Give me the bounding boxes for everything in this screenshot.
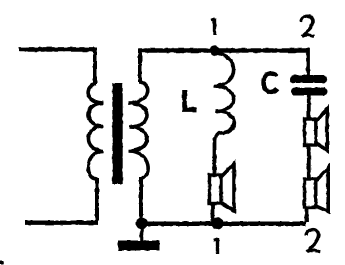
transformer T1 primary winding — [88, 84, 103, 179]
wire top-left (primary input top) — [19, 47, 94, 52]
wire speaker LS3 to bottom rail — [305, 206, 309, 222]
wire bottom-left (primary input bottom) — [25, 220, 98, 224]
capacitor C plate top — [294, 75, 323, 83]
capacitor C plate bottom — [295, 88, 324, 96]
wire node 2 down to capacitor — [306, 48, 310, 76]
wire secondary bottom lead — [139, 177, 143, 223]
terminal tick 1 (top) — [211, 18, 215, 35]
label 2 (bottom) — [306, 230, 320, 253]
wire speaker LS1 to bottom rail — [211, 202, 215, 222]
speaker LS1 horn — [221, 164, 234, 211]
terminal tick 1 (bottom) — [214, 238, 218, 254]
wire speaker LS2 to speaker LS3 — [307, 145, 311, 179]
printing artifact dash bottom-left — [0, 261, 4, 264]
wire secondary top lead — [138, 50, 142, 82]
speaker LS3 (bottom right) body — [305, 179, 316, 208]
ground lead — [140, 226, 144, 241]
transformer T1 core — [112, 83, 122, 184]
speaker LS3 horn — [316, 168, 328, 212]
speaker LS2 (top right) body — [305, 119, 316, 145]
wire capacitor to speaker LS2 — [307, 95, 311, 119]
label C — [264, 74, 278, 92]
junction transformer/ground node — [136, 218, 148, 230]
label L — [182, 90, 197, 110]
wire top (secondary hot to node 1 and node 2) — [138, 48, 309, 53]
wire bottom rail — [141, 222, 306, 227]
transformer T1 secondary winding — [129, 82, 149, 178]
ground symbol — [118, 241, 160, 251]
wire primary bottom lead down — [95, 178, 99, 221]
wire primary top lead down — [93, 48, 97, 84]
label 2 (top) — [301, 16, 314, 36]
wire inductor to midrange speaker — [213, 138, 217, 175]
speaker LS2 horn — [316, 109, 327, 151]
inductor L — [214, 53, 234, 140]
node 1 junction dot (top) — [210, 45, 220, 55]
node 1 junction dot (bottom) — [212, 218, 224, 230]
speaker LS1 (midrange) body — [210, 175, 222, 204]
